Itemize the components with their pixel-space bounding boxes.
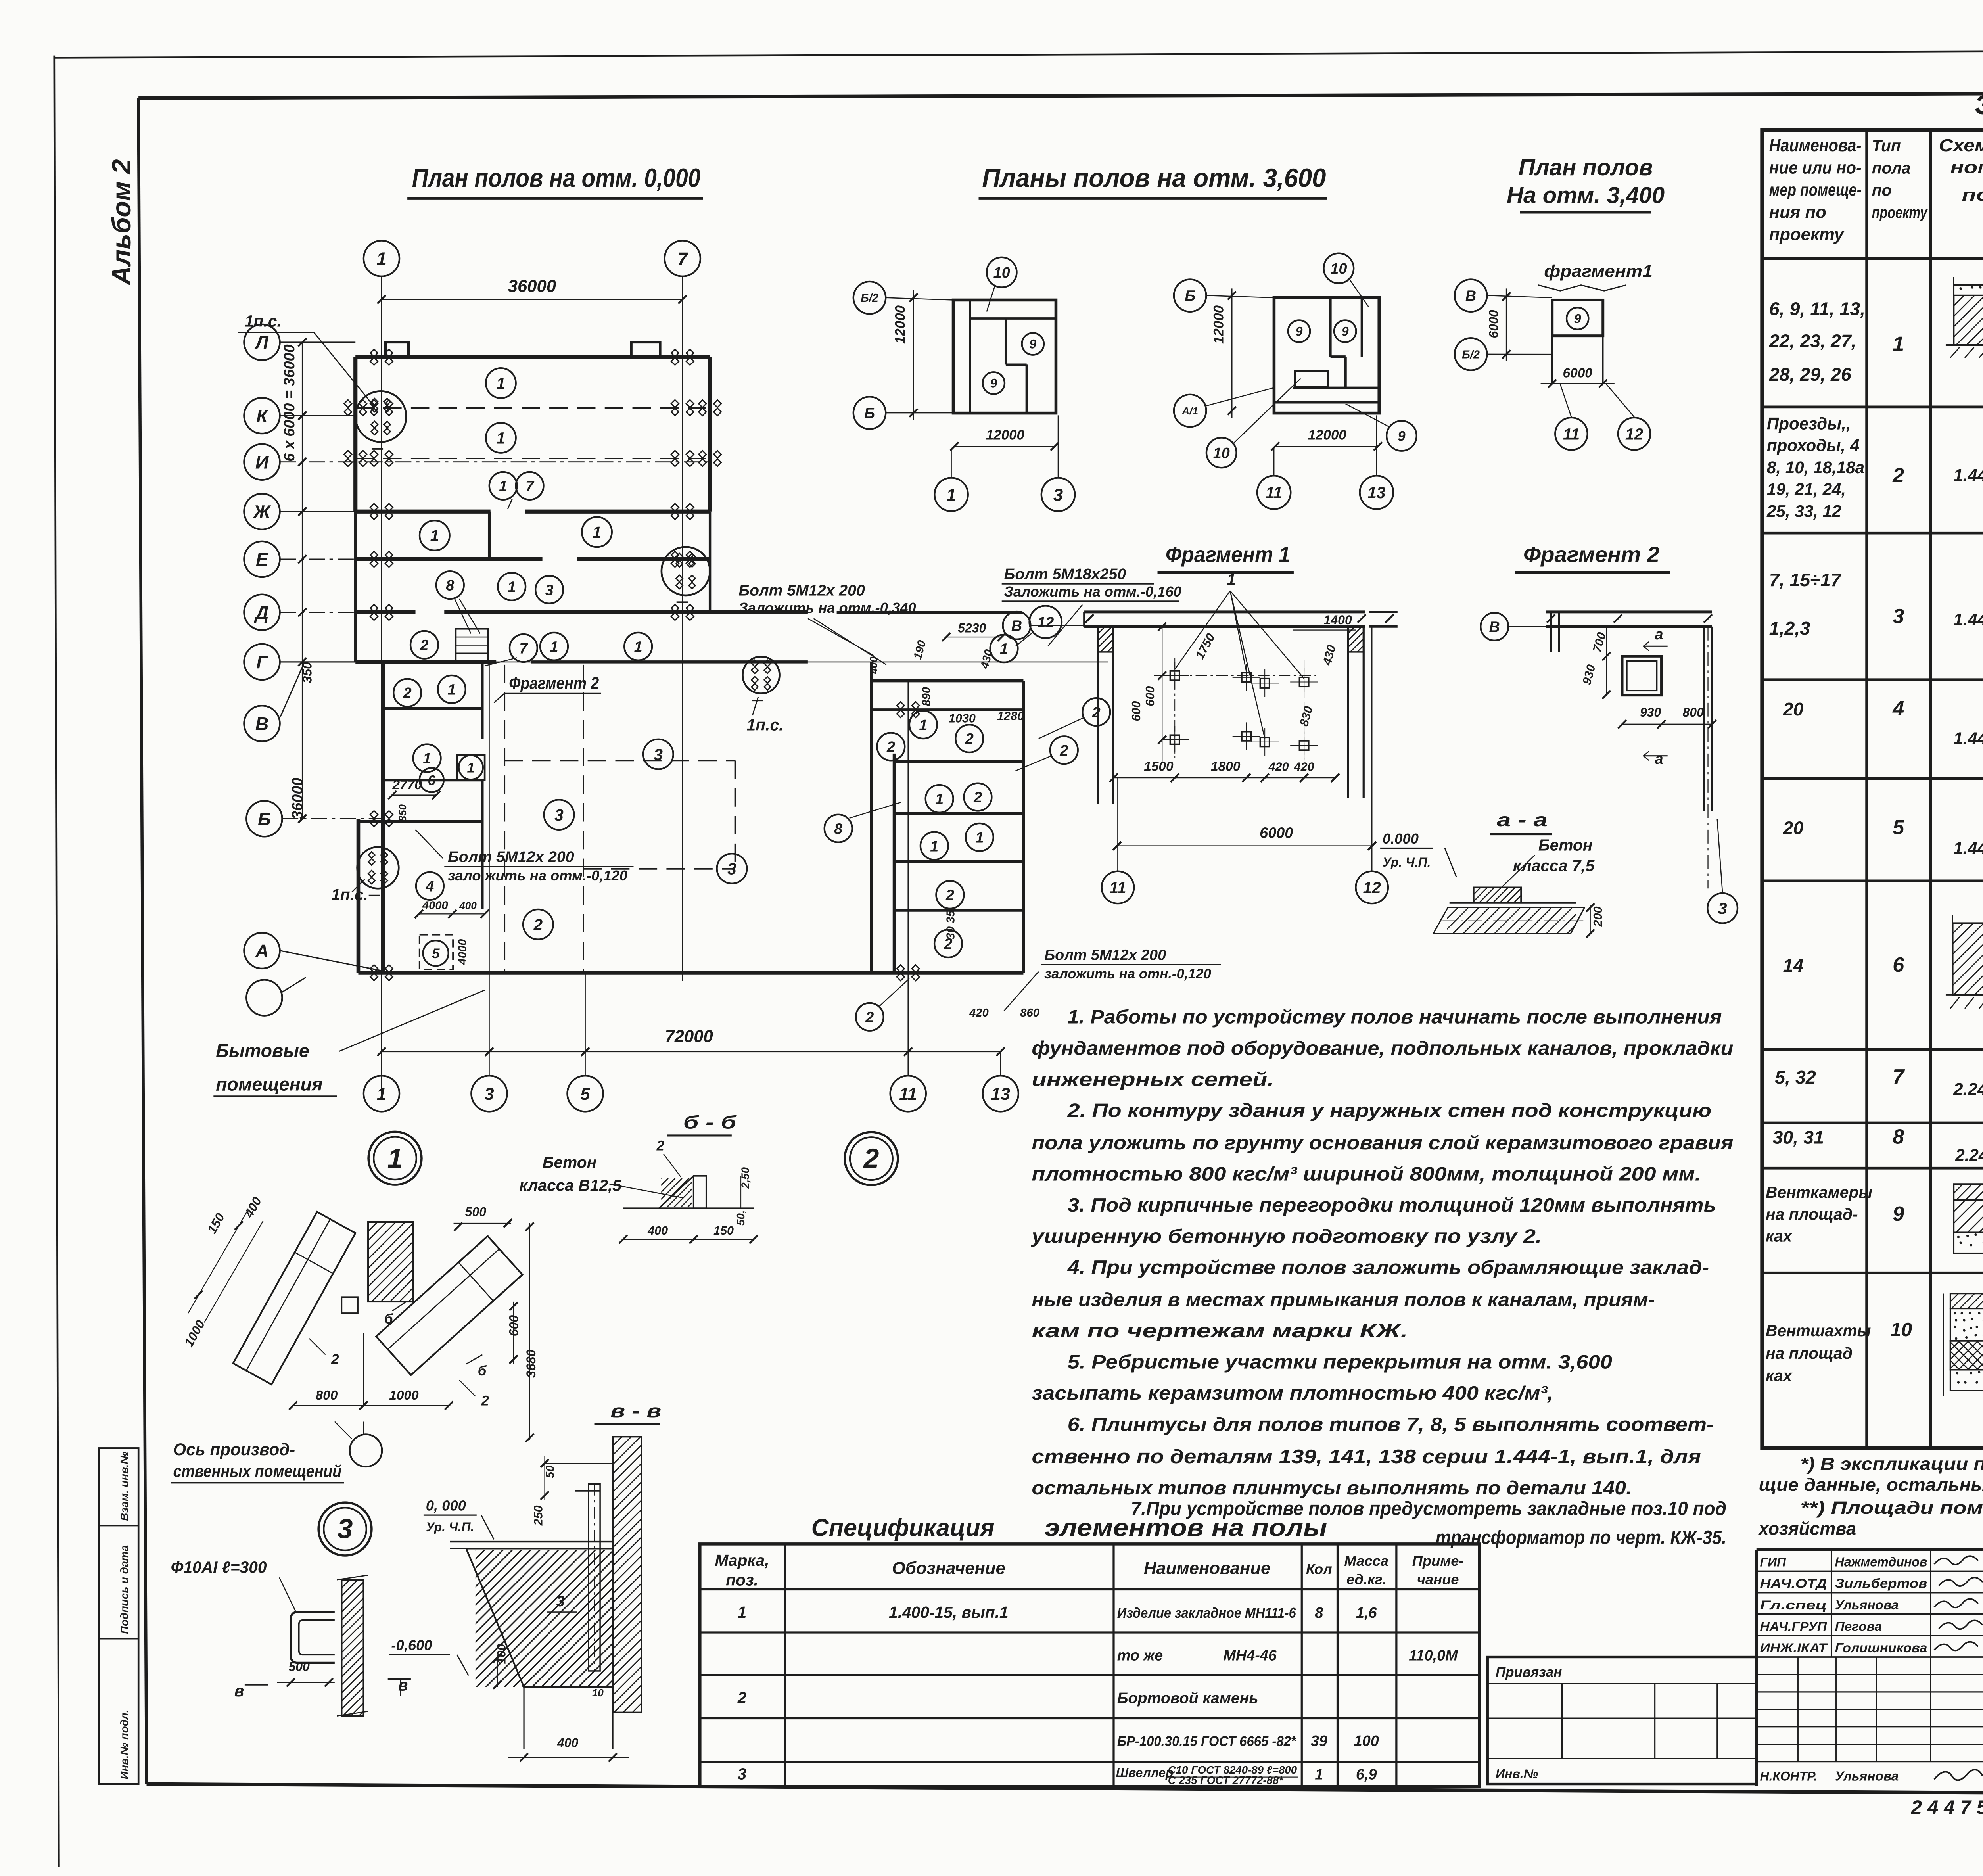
svg-text:1280: 1280	[997, 710, 1024, 723]
svg-text:Планы полов на отм. 3,600: Планы полов на отм. 3,600	[982, 163, 1326, 193]
svg-text:кам по чертежам марки КЖ.: кам по чертежам марки КЖ.	[1032, 1320, 1408, 1342]
svg-text:6, 9, 11, 13,: 6, 9, 11, 13,	[1769, 298, 1865, 319]
svg-text:6 х 6000 = 36000: 6 х 6000 = 36000	[281, 344, 298, 461]
svg-text:Пегова: Пегова	[1835, 1619, 1882, 1634]
svg-text:Н.КОНТР.: Н.КОНТР.	[1760, 1769, 1817, 1783]
svg-text:А: А	[255, 941, 269, 961]
svg-text:Швеллер: Швеллер	[1116, 1766, 1174, 1780]
svg-text:1: 1	[377, 1084, 386, 1104]
svg-text:11: 11	[1266, 483, 1282, 502]
svg-text:ках: ках	[1766, 1227, 1793, 1245]
svg-text:5. Ребристые участки перекрыти: 5. Ребристые участки перекрытия на отм. …	[1068, 1352, 1612, 1373]
svg-text:Б: Б	[1185, 288, 1195, 305]
svg-text:1: 1	[930, 838, 938, 855]
svg-text:Спецификация: Спецификация	[811, 1514, 995, 1541]
svg-text:860: 860	[1020, 1007, 1039, 1019]
svg-text:НАЧ.ОТД: НАЧ.ОТД	[1760, 1577, 1827, 1591]
svg-text:1: 1	[1315, 1766, 1323, 1783]
svg-text:1: 1	[593, 523, 602, 541]
svg-text:400: 400	[459, 900, 477, 912]
svg-text:ственно по деталям 139, 141, 1: ственно по деталям 139, 141, 138 серии 1…	[1032, 1446, 1701, 1467]
svg-text:7: 7	[677, 248, 688, 269]
svg-text:**) Площади помещений указан: **) Площади помещений указаны без вычета…	[1800, 1498, 1983, 1518]
svg-text:1: 1	[1000, 641, 1008, 658]
svg-text:поз.: поз.	[726, 1571, 758, 1589]
svg-text:4: 4	[425, 879, 434, 895]
svg-text:по: по	[1872, 181, 1892, 199]
svg-text:Л: Л	[255, 332, 269, 353]
svg-text:1.444-1, вып.1: 1.444-1, вып.1	[1953, 729, 1983, 748]
svg-text:В: В	[255, 714, 269, 734]
svg-text:12000: 12000	[986, 428, 1025, 443]
svg-text:3: 3	[338, 1513, 353, 1544]
svg-text:10: 10	[1213, 445, 1230, 462]
svg-text:12: 12	[1625, 425, 1644, 443]
svg-text:400: 400	[557, 1736, 579, 1750]
svg-text:420: 420	[1294, 760, 1314, 774]
svg-text:уширенную бетонную подготовку: уширенную бетонную подготовку по узлу 2.	[1030, 1226, 1542, 1247]
svg-text:7: 7	[519, 641, 528, 657]
svg-text:Наименование: Наименование	[1144, 1559, 1270, 1578]
svg-text:12000: 12000	[1211, 305, 1226, 344]
svg-text:Нажметдинов: Нажметдинов	[1835, 1555, 1927, 1570]
svg-text:С 235 ГОСТ 27772-88*: С 235 ГОСТ 27772-88*	[1168, 1774, 1284, 1786]
svg-text:БР-100.30.15 ГОСТ 6665 -82*: БР-100.30.15 ГОСТ 6665 -82*	[1117, 1734, 1296, 1749]
svg-text:9: 9	[1574, 312, 1581, 326]
svg-text:10: 10	[592, 1687, 604, 1699]
svg-text:Бетон: Бетон	[1538, 836, 1593, 854]
svg-text:2.244-1, вып.4: 2.244-1, вып.4	[1953, 1080, 1983, 1099]
svg-text:1: 1	[935, 791, 944, 808]
svg-text:400: 400	[867, 656, 879, 674]
svg-text:10: 10	[1330, 261, 1347, 277]
svg-text:22, 23, 27,: 22, 23, 27,	[1769, 331, 1856, 351]
svg-text:1000: 1000	[389, 1388, 419, 1403]
svg-text:Голишникова: Голишникова	[1835, 1641, 1927, 1655]
svg-text:3: 3	[545, 582, 554, 598]
svg-text:Б: Б	[864, 405, 875, 422]
svg-text:150: 150	[713, 1224, 734, 1237]
svg-text:плотностью 800 кгс/м³ шириной: плотностью 800 кгс/м³ шириной 800мм, тол…	[1032, 1163, 1701, 1185]
svg-text:1: 1	[497, 374, 506, 393]
svg-text:Взам. инв.№: Взам. инв.№	[118, 1452, 130, 1521]
svg-text:100: 100	[1354, 1733, 1379, 1749]
svg-text:6: 6	[428, 773, 436, 788]
svg-text:заложить на отн.-0,120: заложить на отн.-0,120	[1044, 966, 1211, 982]
svg-text:350: 350	[300, 662, 315, 683]
svg-text:Привязан: Привязан	[1496, 1664, 1562, 1680]
svg-text:2770: 2770	[392, 778, 422, 792]
svg-text:ИНЖ.IКАТ: ИНЖ.IКАТ	[1760, 1641, 1828, 1655]
svg-text:5: 5	[432, 946, 440, 961]
svg-text:3. Под кирпичные перегородки т: 3. Под кирпичные перегородки толщиной 12…	[1068, 1195, 1716, 1216]
svg-text:4000: 4000	[422, 900, 448, 912]
svg-text:Альбом 2: Альбом 2	[107, 159, 136, 286]
svg-text:Заложить на отм.-0,340: Заложить на отм.-0,340	[738, 600, 916, 616]
svg-text:11: 11	[1563, 425, 1580, 443]
svg-text:13: 13	[1367, 483, 1386, 502]
svg-text:2: 2	[533, 915, 543, 934]
svg-text:Болт 5М12х 200: Болт 5М12х 200	[738, 581, 865, 599]
svg-text:0, 000: 0, 000	[426, 1498, 466, 1514]
svg-text:Инв.№ подл.: Инв.№ подл.	[118, 1709, 130, 1779]
svg-text:Масса: Масса	[1344, 1553, 1388, 1569]
svg-text:Б/2: Б/2	[861, 292, 878, 305]
svg-text:20: 20	[1783, 818, 1804, 838]
svg-text:хозяйства: хозяйства	[1758, 1519, 1856, 1539]
svg-text:А/1: А/1	[1181, 405, 1198, 417]
svg-text:засыпать керамзитом плотностью: засыпать керамзитом плотностью 400 кгс/м…	[1032, 1383, 1553, 1404]
svg-text:500: 500	[288, 1659, 310, 1674]
svg-text:фрагмент1: фрагмент1	[1544, 261, 1653, 281]
svg-text:На отм. 3,400: На отм. 3,400	[1507, 182, 1665, 208]
svg-text:72000: 72000	[665, 1026, 713, 1046]
svg-text:2: 2	[481, 1393, 489, 1409]
svg-text:щие данные, остальные-принимат: щие данные, остальные-принимать по соотв…	[1759, 1475, 1983, 1495]
svg-text:И: И	[255, 452, 269, 472]
svg-text:Е: Е	[256, 549, 269, 570]
svg-text:1: 1	[946, 485, 956, 504]
svg-text:класса 7,5: класса 7,5	[1513, 857, 1595, 875]
svg-text:3: 3	[1718, 899, 1727, 917]
svg-text:1: 1	[1893, 332, 1904, 355]
svg-text:5230: 5230	[958, 621, 986, 635]
svg-text:Ур. Ч.П.: Ур. Ч.П.	[426, 1520, 474, 1534]
svg-text:1: 1	[423, 750, 431, 767]
svg-text:Болт 5М18х250: Болт 5М18х250	[1004, 566, 1126, 583]
svg-text:0.000: 0.000	[1383, 831, 1419, 847]
svg-text:проекту: проекту	[1769, 225, 1845, 244]
svg-text:39: 39	[1311, 1733, 1327, 1749]
svg-text:1: 1	[975, 829, 984, 846]
svg-text:420: 420	[1268, 760, 1289, 774]
svg-text:Экспликация: Экспликация	[1975, 89, 1983, 120]
svg-text:ственных помещений: ственных помещений	[173, 1462, 341, 1481]
svg-text:1п.с.: 1п.с.	[245, 312, 282, 330]
svg-text:Зильбертов: Зильбертов	[1835, 1577, 1927, 1591]
svg-text:Ульянова: Ульянова	[1835, 1769, 1899, 1784]
svg-text:1п.с.: 1п.с.	[331, 885, 368, 903]
svg-text:остальных типов плинтусы выпол: остальных типов плинтусы выполнять по де…	[1032, 1477, 1632, 1499]
svg-text:19, 21, 24,: 19, 21, 24,	[1767, 480, 1846, 499]
svg-text:В: В	[1011, 618, 1022, 635]
svg-text:13: 13	[991, 1084, 1011, 1104]
svg-text:3: 3	[556, 1593, 565, 1610]
svg-text:Заложить на отм.-0,160: Заложить на отм.-0,160	[1004, 583, 1181, 600]
svg-text:9: 9	[1398, 428, 1406, 444]
svg-text:110,0М: 110,0М	[1409, 1648, 1458, 1664]
svg-text:2: 2	[737, 1688, 747, 1707]
svg-text:6000: 6000	[1563, 366, 1592, 380]
svg-text:12000: 12000	[1308, 428, 1347, 443]
svg-text:Проезды,,: Проезды,,	[1767, 414, 1851, 433]
svg-text:9: 9	[1342, 324, 1349, 339]
svg-text:а - а: а - а	[1497, 809, 1548, 830]
svg-text:1: 1	[634, 639, 642, 656]
svg-text:10: 10	[1890, 1319, 1912, 1341]
svg-text:2: 2	[945, 887, 954, 904]
svg-text:36000: 36000	[289, 778, 306, 819]
svg-text:8: 8	[1893, 1125, 1904, 1148]
svg-text:25, 33, 12: 25, 33, 12	[1766, 502, 1841, 520]
svg-text:то же: то же	[1117, 1648, 1163, 1664]
svg-text:ные изделия в местах примыкани: ные изделия в местах примыкания полов к …	[1032, 1289, 1655, 1311]
svg-text:1: 1	[376, 248, 387, 269]
svg-text:3: 3	[738, 1765, 747, 1783]
svg-text:600: 600	[1130, 701, 1143, 721]
svg-text:3: 3	[654, 745, 663, 763]
svg-text:2: 2	[973, 789, 982, 806]
svg-text:а: а	[1655, 751, 1663, 767]
svg-text:1030: 1030	[949, 712, 976, 725]
svg-text:элементов на полы: элементов на полы	[1044, 1514, 1327, 1541]
svg-text:6. Плинтусы для полов типов 7,: 6. Плинтусы для полов типов 7, 8, 5 выпо…	[1068, 1414, 1714, 1435]
svg-text:Фрагмент 2: Фрагмент 2	[509, 674, 599, 692]
svg-text:Вентшахты: Вентшахты	[1766, 1322, 1871, 1340]
svg-text:28, 29, 26: 28, 29, 26	[1769, 364, 1852, 385]
svg-text:НАЧ.ГРУП: НАЧ.ГРУП	[1760, 1619, 1827, 1634]
svg-text:1: 1	[1227, 570, 1236, 589]
svg-text:План полов: План полов	[1519, 155, 1653, 180]
svg-text:Обозначение: Обозначение	[892, 1559, 1005, 1578]
svg-text:Марка,: Марка,	[715, 1551, 769, 1569]
svg-text:ния по: ния по	[1769, 203, 1826, 222]
svg-text:В: В	[1465, 288, 1476, 305]
svg-text:проходы, 4: проходы, 4	[1767, 436, 1859, 455]
svg-text:на площад-: на площад-	[1766, 1205, 1858, 1223]
svg-text:20: 20	[1783, 699, 1804, 719]
svg-text:а: а	[1655, 626, 1663, 643]
svg-text:Схема пола или: Схема пола или	[1939, 136, 1983, 155]
svg-text:Венткамеры: Венткамеры	[1766, 1183, 1872, 1201]
svg-text:2: 2	[1892, 464, 1904, 487]
svg-text:в: в	[234, 1682, 244, 1700]
svg-text:12: 12	[1037, 614, 1054, 631]
svg-text:36000: 36000	[508, 276, 556, 296]
svg-text:2: 2	[1059, 742, 1068, 759]
svg-text:Гл.спец: Гл.спец	[1760, 1598, 1827, 1612]
svg-text:8: 8	[834, 821, 842, 837]
svg-text:8: 8	[1315, 1605, 1323, 1621]
svg-text:1п.с.: 1п.с.	[747, 716, 784, 734]
svg-text:1: 1	[919, 717, 927, 734]
svg-text:инженерных сетей.: инженерных сетей.	[1032, 1069, 1274, 1090]
svg-text:6000: 6000	[1260, 825, 1293, 841]
svg-text:1: 1	[738, 1603, 747, 1621]
svg-text:К: К	[256, 406, 269, 426]
svg-text:План полов на отм. 0,000: План полов на отм. 0,000	[412, 163, 700, 193]
svg-text:9: 9	[1029, 337, 1036, 351]
svg-text:1.444-1, вып.1: 1.444-1, вып.1	[1953, 610, 1983, 629]
svg-text:2: 2	[420, 637, 428, 654]
svg-text:в - в: в - в	[610, 1400, 661, 1421]
svg-text:850: 850	[397, 804, 408, 821]
svg-text:1,6: 1,6	[1356, 1605, 1377, 1621]
svg-text:8, 10, 18,18а: 8, 10, 18,18а	[1767, 458, 1864, 477]
svg-text:3680: 3680	[524, 1350, 538, 1378]
svg-text:50: 50	[544, 1466, 557, 1478]
svg-text:Д: Д	[254, 602, 269, 623]
svg-text:800: 800	[316, 1388, 338, 1403]
svg-text:930: 930	[1640, 705, 1661, 719]
svg-text:Кол: Кол	[1306, 1561, 1332, 1577]
svg-text:Ж: Ж	[253, 502, 272, 522]
svg-text:8: 8	[446, 577, 454, 594]
svg-text:МН4-46: МН4-46	[1223, 1648, 1277, 1664]
svg-text:1.400-15, вып.1: 1.400-15, вып.1	[889, 1603, 1009, 1621]
svg-text:400: 400	[647, 1224, 668, 1237]
svg-text:Тип: Тип	[1872, 136, 1901, 155]
svg-text:5: 5	[580, 1084, 590, 1104]
svg-text:9: 9	[1296, 324, 1303, 339]
svg-text:800: 800	[1683, 705, 1704, 719]
svg-text:ние или но-: ние или но-	[1769, 158, 1862, 177]
svg-text:Ур. Ч.П.: Ур. Ч.П.	[1383, 855, 1431, 869]
svg-text:9: 9	[1893, 1203, 1904, 1226]
svg-text:1800: 1800	[1211, 760, 1241, 774]
svg-text:2. По контуру здания у наружны: 2. По контуру здания у наружных стен под…	[1067, 1100, 1711, 1121]
svg-text:2 4 4 7 5 - 0 2: 2 4 4 7 5 - 0 2	[1911, 1797, 1983, 1818]
svg-text:1: 1	[499, 478, 507, 495]
svg-text:2: 2	[403, 685, 412, 702]
svg-text:10: 10	[993, 265, 1010, 281]
svg-text:3: 3	[554, 806, 564, 824]
svg-text:2: 2	[965, 731, 974, 748]
svg-text:мер помеще-: мер помеще-	[1769, 180, 1862, 199]
svg-text:3: 3	[484, 1084, 494, 1104]
svg-text:Приме-: Приме-	[1412, 1553, 1464, 1569]
svg-text:100: 100	[495, 1644, 508, 1664]
svg-text:7: 7	[1893, 1065, 1905, 1088]
svg-text:Бортовой камень: Бортовой камень	[1117, 1689, 1258, 1707]
svg-text:2: 2	[656, 1138, 665, 1154]
svg-text:1400: 1400	[1324, 613, 1352, 627]
svg-text:Изделие закладное МН111-6: Изделие закладное МН111-6	[1117, 1605, 1296, 1621]
svg-text:Инв.№: Инв.№	[1496, 1767, 1538, 1781]
svg-text:В: В	[1489, 619, 1500, 635]
svg-text:пола уложить по грунту основан: пола уложить по грунту основания слой ке…	[1032, 1132, 1733, 1154]
svg-text:Б: Б	[258, 809, 271, 829]
svg-text:3: 3	[1893, 605, 1904, 628]
svg-text:600: 600	[1143, 686, 1157, 706]
svg-text:30, 31: 30, 31	[1772, 1127, 1824, 1147]
svg-text:420: 420	[969, 1007, 989, 1019]
svg-text:на площад: на площад	[1766, 1344, 1853, 1362]
svg-text:12000: 12000	[892, 305, 908, 344]
svg-text:12: 12	[1363, 879, 1381, 897]
svg-text:класса В12,5: класса В12,5	[519, 1176, 622, 1195]
svg-text:500: 500	[465, 1205, 487, 1219]
svg-text:б - б: б - б	[683, 1112, 737, 1132]
svg-text:2: 2	[865, 1009, 874, 1026]
svg-text:1: 1	[430, 527, 439, 545]
svg-text:1. Работы по устройству полов: 1. Работы по устройству полов начинать п…	[1068, 1007, 1722, 1028]
svg-text:2: 2	[331, 1352, 339, 1367]
svg-text:Ф10АІ ℓ=300: Ф10АІ ℓ=300	[171, 1558, 267, 1577]
svg-text:1500: 1500	[1144, 760, 1174, 774]
svg-text:3: 3	[1053, 485, 1063, 504]
svg-text:Подпись и дата: Подпись и дата	[118, 1545, 130, 1634]
svg-text:-0,600: -0,600	[391, 1637, 432, 1653]
svg-text:50,: 50,	[735, 1210, 747, 1225]
svg-text:7, 15÷17: 7, 15÷17	[1769, 570, 1842, 590]
svg-text:б: б	[384, 1311, 393, 1327]
svg-text:14: 14	[1783, 955, 1804, 976]
svg-text:Фрагмент 1: Фрагмент 1	[1166, 542, 1290, 567]
svg-text:ед.кг.: ед.кг.	[1346, 1571, 1387, 1588]
svg-text:1: 1	[387, 1143, 403, 1174]
svg-text:1,2,3: 1,2,3	[1769, 618, 1810, 639]
svg-text:ГИП: ГИП	[1760, 1555, 1786, 1569]
svg-text:ках: ках	[1766, 1367, 1793, 1385]
svg-text:б: б	[478, 1363, 487, 1379]
svg-text:1: 1	[467, 760, 474, 775]
svg-text:1: 1	[447, 681, 456, 698]
svg-text:890: 890	[920, 687, 933, 706]
svg-text:Б/2: Б/2	[1462, 348, 1480, 361]
svg-text:2.244-1, вып.4: 2.244-1, вып.4	[1955, 1146, 1983, 1164]
svg-text:1.444-1, вып.1: 1.444-1, вып.1	[1953, 466, 1983, 485]
svg-text:фундаментов под оборудование,: фундаментов под оборудование, подпольных…	[1032, 1038, 1733, 1059]
svg-text:11: 11	[899, 1084, 917, 1104]
svg-text:Г: Г	[256, 652, 268, 673]
svg-text:1.444-1, вып.1: 1.444-1, вып.1	[1953, 838, 1983, 858]
svg-text:помещения: помещения	[216, 1074, 322, 1094]
svg-text:4. При устройстве полов заложи: 4. При устройстве полов заложить обрамля…	[1067, 1257, 1709, 1278]
svg-text:Болт 5М12х 200: Болт 5М12х 200	[448, 848, 574, 865]
svg-text:1: 1	[497, 429, 506, 447]
svg-text:5: 5	[1893, 816, 1904, 839]
svg-text:6: 6	[1893, 953, 1904, 976]
svg-text:Бетон: Бетон	[543, 1153, 597, 1171]
svg-text:9: 9	[990, 376, 997, 390]
svg-text:чание: чание	[1417, 1571, 1459, 1588]
svg-text:1: 1	[508, 579, 516, 596]
svg-text:250: 250	[532, 1505, 545, 1526]
svg-text:Фрагмент 2: Фрагмент 2	[1523, 542, 1660, 567]
svg-text:*) В экспликации полов в графе: *) В экспликации полов в графе „элементы…	[1800, 1454, 1983, 1474]
svg-text:6,9: 6,9	[1356, 1766, 1377, 1783]
svg-text:30: 30	[944, 926, 957, 939]
svg-text:2: 2	[863, 1143, 879, 1174]
svg-text:7: 7	[525, 478, 535, 495]
svg-text:6000: 6000	[1486, 310, 1501, 338]
svg-text:номер узла: номер узла	[1950, 157, 1983, 177]
svg-text:Болт 5М12х 200: Болт 5М12х 200	[1044, 947, 1166, 964]
svg-text:Ульянова: Ульянова	[1835, 1598, 1899, 1613]
svg-text:Наименова-: Наименова-	[1769, 136, 1862, 155]
svg-text:3: 3	[727, 860, 736, 878]
svg-text:2: 2	[886, 739, 895, 756]
svg-text:Ось производ-: Ось производ-	[173, 1440, 295, 1459]
svg-text:5, 32: 5, 32	[1775, 1067, 1816, 1088]
svg-text:200: 200	[1591, 906, 1605, 927]
svg-text:4000: 4000	[456, 939, 469, 965]
svg-text:зало жить на отм.-0,120: зало жить на отм.-0,120	[448, 867, 627, 884]
svg-text:проекту: проекту	[1872, 203, 1928, 222]
svg-text:пола: пола	[1872, 159, 1911, 177]
svg-text:1: 1	[550, 639, 558, 656]
svg-text:4: 4	[1892, 697, 1904, 720]
svg-text:11: 11	[1109, 879, 1126, 897]
svg-text:35: 35	[944, 910, 957, 923]
svg-text:по серии: по серии	[1962, 185, 1983, 205]
svg-text:Бытовые: Бытовые	[216, 1040, 309, 1061]
